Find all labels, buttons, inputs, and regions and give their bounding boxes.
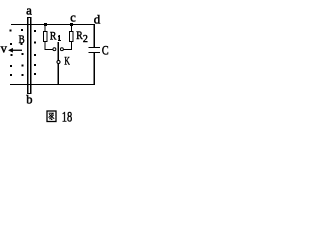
svg-text:K: K [64,55,69,68]
field dot [10,43,12,45]
field dot [22,53,24,55]
node c junction over R2 [70,23,73,26]
wire switch pivot to bottom rail [58,64,59,84]
switch K pivot [57,60,60,63]
label R1 [50,31,61,43]
svg-text:b: b [26,93,32,107]
capacitor C top plate [89,47,101,48]
wire right side down to capacitor [94,25,95,47]
field dot [21,29,23,31]
field dot [10,30,12,32]
field dot [11,54,13,56]
svg-text:2: 2 [83,34,88,45]
svg-text:R: R [50,31,57,43]
field dot [10,65,12,67]
field dot [34,73,36,75]
bottom rail wire [10,84,95,85]
svg-text:d: d [94,12,101,27]
conducting rod ab [27,17,31,94]
field dot [34,64,36,66]
svg-text:C: C [102,43,109,57]
switch K left contact [53,48,56,51]
top rail wire [11,24,95,25]
velocity arrow [8,48,22,53]
svg-text:18: 18 [62,109,72,125]
field dot [21,43,23,45]
field dot [22,65,24,67]
wire switch to R2 [63,49,72,50]
field dot [10,74,12,76]
svg-text:a: a [26,3,32,18]
svg-text:v: v [1,41,8,55]
svg-text:c: c [70,10,76,24]
switch K lever [58,42,59,60]
capacitor C bottom plate [89,52,101,53]
caption 图 glyph [47,111,56,122]
field dot [34,30,36,32]
resistor R2 [70,26,74,49]
resistor R1 [44,26,48,49]
wire R1 to switch [45,49,53,50]
field dot [34,54,36,56]
label R2 [76,31,88,46]
switch K right contact [60,48,63,51]
field dot [34,42,36,44]
wire capacitor to bottom rail [94,53,95,84]
node junction over R1 [44,23,47,26]
field dot [22,74,24,76]
